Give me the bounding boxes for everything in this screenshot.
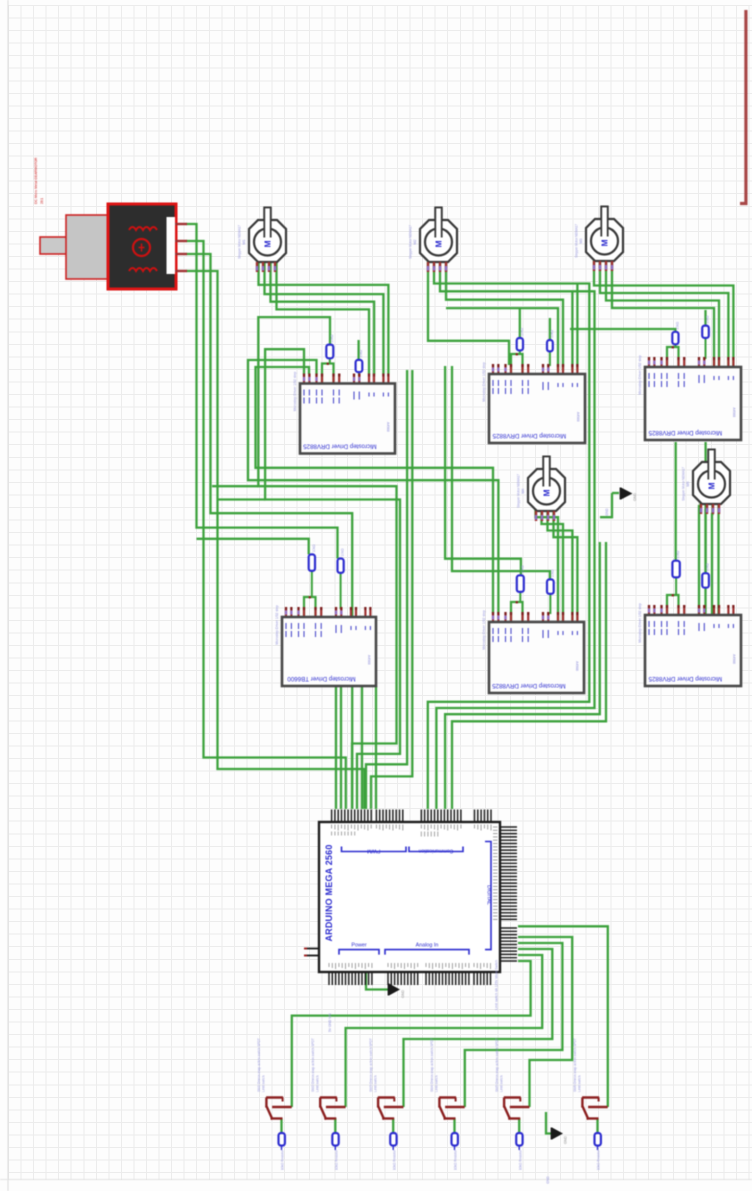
svg-text:SW3 Omron snap action switch S: SW3 Omron snap action switch SPDT (369, 1038, 373, 1092)
svg-text:SW6 Omron snap action switch S: SW6 Omron snap action switch SPDT (573, 1038, 577, 1092)
svg-text:10kΩ: 10kΩ (330, 334, 334, 342)
svg-text:A4988: A4988 (732, 407, 736, 417)
svg-text:Stepper Motor NEMA17: Stepper Motor NEMA17 (517, 474, 521, 508)
svg-text:SW5 Omron snap action switch S: SW5 Omron snap action switch SPDT (495, 1038, 499, 1092)
svg-text:GND: GND (546, 1176, 550, 1184)
svg-text:M1: M1 (242, 240, 246, 245)
svg-text:Communication: Communication (418, 848, 453, 854)
svg-text:Microstep Driver DRV8825: Microstep Driver DRV8825 (492, 432, 566, 439)
svg-text:DC Micro Metal GEARMOTOR: DC Micro Metal GEARMOTOR (34, 157, 38, 204)
svg-text:Microstep Driver DRV8825: Microstep Driver DRV8825 (648, 429, 722, 436)
svg-text:10kΩ: 10kΩ (520, 565, 524, 573)
svg-text:10kΩ: 10kΩ (341, 548, 345, 556)
svg-text:Power: Power (351, 943, 366, 949)
svg-text:M: M (434, 240, 444, 247)
svg-text:M: M (542, 489, 552, 496)
svg-text:Microstep Driver DRV8825: Microstep Driver DRV8825 (303, 443, 377, 450)
svg-text:M: M (600, 239, 610, 246)
svg-text:Microstep Driver 1/32 step: Microstep Driver 1/32 step (482, 610, 486, 650)
svg-text:10kΩ: 10kΩ (706, 315, 710, 323)
svg-text:10kΩ: 10kΩ (675, 321, 679, 329)
svg-text:SW1 Omron snap action switch S: SW1 Omron snap action switch SPDT (257, 1038, 261, 1092)
svg-text:Limit switch: Limit switch (499, 1075, 503, 1092)
svg-text:Microstep Driver 1/32 step: Microstep Driver 1/32 step (482, 362, 486, 402)
svg-text:10kΩ: 10kΩ (706, 563, 710, 571)
svg-text:Limit switch: Limit switch (578, 1075, 582, 1092)
svg-text:M4: M4 (521, 489, 525, 494)
svg-text:ARDUINO MEGA 2560: ARDUINO MEGA 2560 (324, 844, 334, 941)
svg-text:Limit switch: Limit switch (315, 1075, 319, 1092)
svg-text:Limit switch: Limit switch (435, 1075, 439, 1092)
svg-text:PWM: PWM (367, 848, 381, 854)
svg-text:GND: GND (564, 1136, 568, 1144)
svg-text:A4988: A4988 (575, 661, 579, 671)
svg-text:Stepper Motor NEMA17: Stepper Motor NEMA17 (575, 224, 579, 258)
svg-text:10kΩ Resistor: 10kΩ Resistor (518, 1149, 522, 1170)
svg-text:Microstep Driver 1/32 step: Microstep Driver 1/32 step (638, 355, 642, 395)
svg-text:Limit switch: Limit switch (373, 1075, 377, 1092)
svg-text:M: M (263, 240, 273, 247)
svg-text:10kΩ: 10kΩ (676, 550, 680, 558)
svg-text:10kΩ: 10kΩ (359, 349, 363, 357)
svg-text:10kΩ: 10kΩ (550, 569, 554, 577)
svg-text:10kΩ Resistor: 10kΩ Resistor (334, 1149, 338, 1170)
svg-text:Microstep Driver 1/32 step: Microstep Driver 1/32 step (638, 603, 642, 643)
svg-text:Limit switch: Limit switch (262, 1075, 266, 1092)
svg-text:Microstep Driver DRV8825: Microstep Driver DRV8825 (492, 682, 566, 689)
svg-text:DIGITAL: DIGITAL (486, 885, 492, 905)
svg-text:Microstep Driver 1/32 step: Microstep Driver 1/32 step (293, 372, 297, 412)
svg-text:SW4 Omron snap action switch S: SW4 Omron snap action switch SPDT (430, 1038, 434, 1092)
svg-text:Limit switch 4A 125V Micro Swi: Limit switch 4A 125V Micro Switch (495, 960, 499, 1010)
svg-text:GND: GND (605, 508, 609, 516)
svg-text:A4988: A4988 (386, 422, 390, 432)
svg-text:GND: GND (633, 493, 637, 501)
svg-text:A4988: A4988 (576, 412, 580, 422)
svg-text:M2: M2 (413, 240, 417, 245)
svg-text:A4988: A4988 (367, 655, 371, 665)
svg-text:M3: M3 (579, 239, 583, 244)
svg-text:Microstep Driver DRV8825: Microstep Driver DRV8825 (648, 675, 722, 682)
svg-text:Analog In: Analog In (416, 943, 439, 949)
svg-text:GND: GND (401, 990, 405, 998)
svg-text:10kΩ Resistor: 10kΩ Resistor (392, 1149, 396, 1170)
svg-text:Stepper Motor NEMA17: Stepper Motor NEMA17 (682, 467, 686, 501)
svg-text:10kΩ: 10kΩ (312, 544, 316, 552)
svg-text:M5: M5 (686, 482, 690, 487)
svg-text:A4988: A4988 (732, 654, 736, 664)
svg-text:SW2 Omron snap action switch S: SW2 Omron snap action switch SPDT (311, 1038, 315, 1092)
svg-text:10kΩ: 10kΩ (520, 328, 524, 336)
svg-text:5V GND VIN: 5V GND VIN (328, 1013, 332, 1032)
svg-text:M: M (707, 482, 717, 489)
svg-text:10kΩ Resistor: 10kΩ Resistor (597, 1149, 601, 1170)
svg-text:10kΩ Resistor: 10kΩ Resistor (281, 1149, 285, 1170)
svg-text:Stepper Motor NEMA17: Stepper Motor NEMA17 (409, 225, 413, 259)
svg-text:28:1: 28:1 (40, 198, 44, 204)
svg-text:10kΩ Resistor: 10kΩ Resistor (454, 1149, 458, 1170)
svg-text:Microstep Driver 1/32 step: Microstep Driver 1/32 step (275, 605, 279, 645)
svg-text:Stepper Motor NEMA17: Stepper Motor NEMA17 (238, 225, 242, 259)
svg-text:Microstep Driver TB6600: Microstep Driver TB6600 (287, 675, 356, 682)
svg-text:10kΩ: 10kΩ (550, 330, 554, 338)
